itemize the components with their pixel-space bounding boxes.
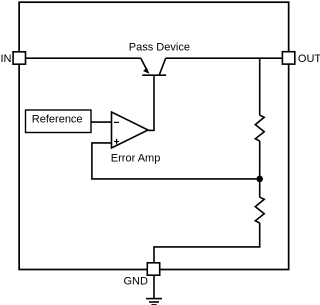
svg-text:OUT: OUT [298,53,320,65]
wire: OUT rail down to resistor R1 [259,58,261,115]
svg-text:Reference: Reference [32,114,83,126]
resistor R1 (upper feedback divider) [255,115,264,141]
wire: reference output to error-amp inverting input [91,121,112,123]
svg-text:GND: GND [124,276,149,288]
terminal OUT [282,52,294,64]
wire: R2 bottom to GND terminal [154,223,260,263]
transistor Q1 (PNP pass device) [141,58,166,75]
svg-text:Error Amp: Error Amp [111,153,161,165]
terminal IN [13,52,25,64]
wire: R1 bottom to feedback node [259,141,261,179]
resistor R2 (lower feedback divider) [255,197,264,223]
wire: transistor base lead down to error-amp output [153,76,155,131]
reference block U2 [26,110,92,133]
IC body outline [19,2,289,269]
node: feedback junction [256,176,263,183]
op-amp U1 (error amplifier) [112,112,149,148]
wire: feedback node down to resistor R2 [259,179,261,197]
svg-text:Pass Device: Pass Device [129,42,190,54]
wire: non-inverting input to feedback node [92,143,257,179]
terminal GND [147,263,159,275]
ground symbol [146,275,162,305]
wire: error-amp output to base node [148,129,155,131]
svg-text:IN: IN [1,53,12,65]
wire: IN terminal to pass-transistor emitter [26,57,141,59]
wire: pass-transistor collector to OUT terminal [166,57,283,59]
